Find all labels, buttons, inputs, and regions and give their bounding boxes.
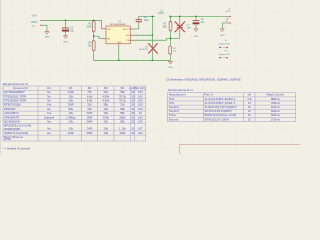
svg-text:TBD: TBD <box>187 28 192 30</box>
svg-text:VBUS: VBUS <box>31 22 38 24</box>
svg-text:22u: 22u <box>70 29 75 32</box>
svg-text:100k: 100k <box>86 26 92 29</box>
svg-text:GND: GND <box>220 35 225 37</box>
svg-text:MSS2P2: MSS2P2 <box>139 49 148 51</box>
svg-text:GND: GND <box>194 36 199 38</box>
svg-text:100n: 100n <box>144 19 150 22</box>
svg-text:GND: GND <box>45 36 50 38</box>
svg-text:VIN: VIN <box>107 29 111 31</box>
svg-text:+5V1: +5V1 <box>32 16 38 18</box>
svg-text:GND: GND <box>63 41 68 43</box>
svg-text:22u: 22u <box>201 21 206 24</box>
svg-text:EN: EN <box>107 38 110 40</box>
svg-text:GND: GND <box>117 42 122 44</box>
svg-text:NCV890200MW: NCV890200MW <box>110 24 126 26</box>
svg-text:GND: GND <box>168 67 173 69</box>
svg-text:10uH: 10uH <box>158 12 164 15</box>
svg-text:BOOT: BOOT <box>123 29 130 31</box>
svg-text:+5V1: +5V1 <box>225 11 231 13</box>
